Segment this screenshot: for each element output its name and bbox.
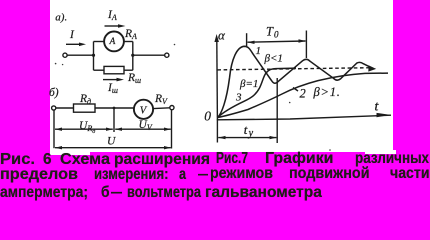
svg-text:β=1: β=1 bbox=[239, 78, 258, 90]
svg-text:1: 1 bbox=[256, 45, 262, 57]
svg-text:V: V bbox=[140, 106, 148, 117]
svg-text:α: α bbox=[218, 28, 226, 43]
terminal right b bbox=[170, 106, 174, 110]
curve 1 underdamped bbox=[218, 46, 374, 117]
svg-text:RV: RV bbox=[154, 93, 168, 106]
wire to shunt left bbox=[94, 69, 105, 71]
svg-text:0: 0 bbox=[204, 108, 211, 123]
axis alpha bbox=[216, 40, 219, 120]
noise speck bbox=[174, 44, 176, 46]
svg-text:б): б) bbox=[49, 87, 59, 99]
dimension U bbox=[55, 147, 171, 149]
dimension U_V bbox=[115, 128, 171, 130]
wire branch left vertical bbox=[93, 42, 95, 71]
wire to ammeter bbox=[94, 41, 105, 43]
terminal left a bbox=[63, 53, 67, 57]
svg-text:Iш: Iш bbox=[107, 82, 118, 95]
dimension U_Rd bbox=[55, 128, 113, 130]
svg-text:U: U bbox=[107, 136, 116, 148]
curve 2 overdamped bbox=[218, 73, 389, 117]
svg-text:а).: а). bbox=[55, 11, 67, 23]
svg-text:β>1.: β>1. bbox=[313, 85, 341, 99]
axis t bbox=[217, 115, 391, 120]
svg-text:T0: T0 bbox=[266, 25, 279, 40]
wire right drop bbox=[171, 110, 173, 149]
curve 3 critical bbox=[218, 68, 297, 117]
svg-text:t: t bbox=[375, 99, 380, 114]
t_y tick left axis extension bbox=[216, 120, 218, 143]
wire b1 bbox=[56, 107, 74, 109]
svg-text:Rш: Rш bbox=[127, 72, 141, 85]
wire left a bbox=[67, 54, 93, 56]
wire right a bbox=[133, 54, 165, 56]
T0 tick right bbox=[305, 31, 307, 59]
current arrow I bbox=[66, 43, 80, 45]
svg-text:β<1: β<1 bbox=[264, 53, 283, 65]
current arrow I_sh bbox=[103, 79, 117, 81]
t_y tick right bbox=[276, 78, 278, 143]
curve 1 end arrow bbox=[368, 65, 376, 71]
T0 tick left bbox=[246, 33, 248, 46]
svg-text:3: 3 bbox=[235, 91, 242, 103]
steady state dashed line bbox=[217, 68, 371, 70]
node mid tick bbox=[113, 108, 115, 132]
wire from shunt right bbox=[124, 69, 133, 71]
T0 dimension bbox=[248, 41, 306, 42]
resistor R_sh bbox=[104, 66, 124, 73]
wire b3 bbox=[153, 107, 169, 110]
terminal left b bbox=[52, 106, 56, 110]
wire left drop bbox=[53, 110, 55, 148]
t_y dimension bbox=[218, 137, 276, 139]
terminal right a bbox=[165, 53, 169, 57]
svg-text:UV: UV bbox=[139, 119, 153, 132]
caption bbox=[0, 152, 35, 168]
resistor R_d bbox=[74, 104, 96, 112]
current arrow I_A bbox=[105, 25, 120, 27]
noise speck bbox=[62, 64, 63, 65]
node junction left bbox=[92, 54, 95, 57]
ammeter A bbox=[104, 32, 124, 52]
wire b2 bbox=[95, 107, 134, 109]
svg-text:tу: tу bbox=[244, 122, 254, 139]
noise speck bbox=[55, 63, 57, 65]
noise speck bbox=[329, 149, 331, 151]
svg-text:2: 2 bbox=[300, 87, 306, 101]
node junction right bbox=[131, 54, 134, 57]
wire from ammeter bbox=[124, 41, 133, 43]
svg-text:I: I bbox=[69, 29, 75, 41]
svg-text:RA: RA bbox=[124, 28, 137, 41]
leader for 2 bbox=[293, 88, 298, 92]
noise speck bbox=[289, 102, 291, 104]
wire branch right vertical bbox=[132, 42, 134, 71]
voltmeter V bbox=[134, 100, 153, 119]
svg-text:A: A bbox=[109, 37, 116, 47]
svg-text:IA: IA bbox=[107, 9, 117, 22]
svg-text:URд: URд bbox=[79, 120, 95, 135]
